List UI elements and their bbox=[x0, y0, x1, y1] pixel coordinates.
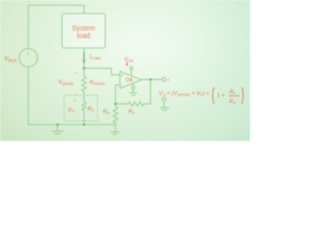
svg-text:+: + bbox=[74, 98, 77, 103]
svg-text:OA: OA bbox=[126, 78, 134, 84]
svg-text:+: + bbox=[75, 70, 78, 75]
svg-text:VOA: VOA bbox=[124, 57, 134, 63]
svg-text:load: load bbox=[77, 33, 90, 40]
svg-text:+: + bbox=[121, 73, 124, 78]
svg-text:VBUS: VBUS bbox=[4, 57, 17, 63]
svg-text:System: System bbox=[72, 25, 96, 32]
svg-text:1 +: 1 + bbox=[217, 93, 225, 99]
svg-text:+: + bbox=[167, 78, 170, 83]
